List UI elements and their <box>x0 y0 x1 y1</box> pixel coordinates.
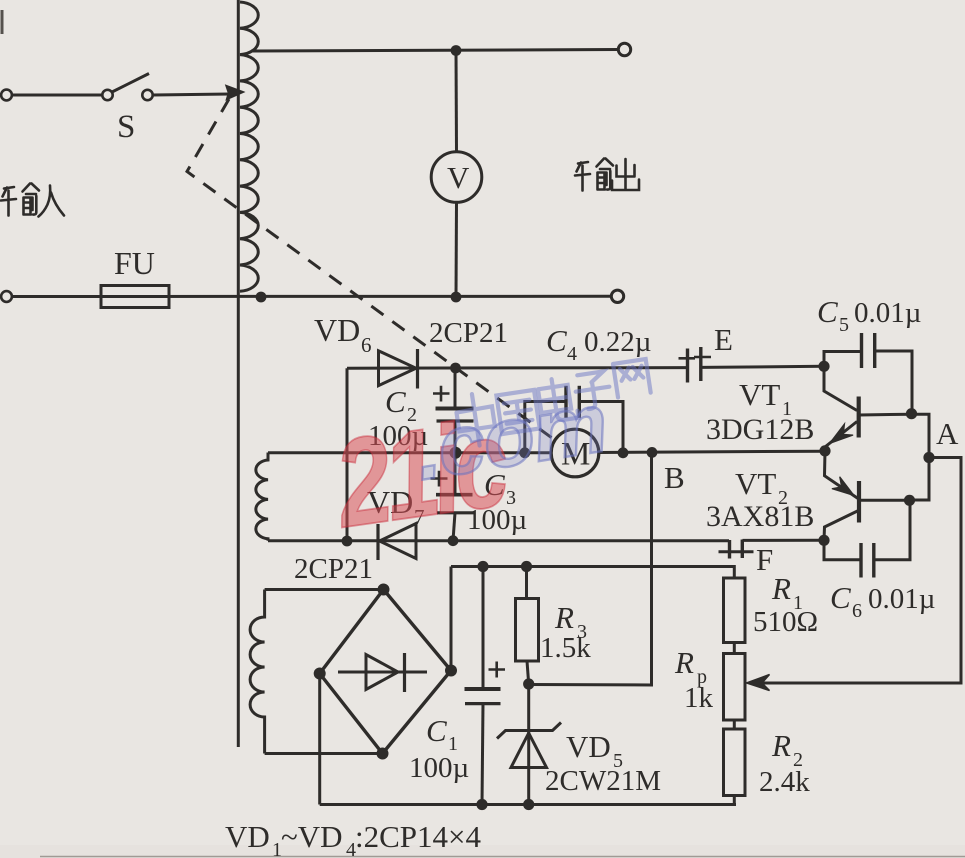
svg-text:100µ: 100µ <box>409 752 469 784</box>
svg-text:4: 4 <box>567 343 577 365</box>
resistor R3 1.5k <box>516 567 539 685</box>
svg-text:VT: VT <box>735 466 776 501</box>
char 入 <box>39 186 65 217</box>
junction C1 bottom on bottom rail <box>476 799 487 810</box>
label 输入 (input) <box>1 184 64 217</box>
watermark 21IC red <box>326 392 516 554</box>
svg-text:0.22µ: 0.22µ <box>584 326 651 358</box>
junction bridge bottom vertex <box>377 748 389 760</box>
svg-text:F: F <box>756 542 773 577</box>
label 510ohm (R1 value) <box>753 606 818 638</box>
wire node A to Rp wiper <box>750 458 961 684</box>
dashed mechanical link from wiper to motor <box>187 99 552 438</box>
junction primary bottom on input row <box>256 292 267 303</box>
svg-text:R: R <box>674 645 694 680</box>
transistor VT2 3AX81B (PNP, mirrored) <box>824 451 909 540</box>
svg-text:R: R <box>554 600 574 635</box>
resistor R1 510ohm <box>724 578 746 654</box>
junction bridge top vertex <box>378 584 390 596</box>
svg-text:2CP21: 2CP21 <box>429 317 508 349</box>
wire bridge left vertex drop to bottom rail <box>318 674 321 805</box>
junction C3 bottom on F row <box>448 535 459 546</box>
svg-text:VT: VT <box>739 377 780 412</box>
svg-text:VD: VD <box>314 312 360 348</box>
svg-text:B: B <box>664 460 685 495</box>
junction voltmeter top <box>451 45 462 56</box>
junction VT1 collector / C5 left / E row <box>818 361 829 372</box>
bridge inner diode symbol <box>338 653 427 692</box>
Rp wiper arrow <box>747 675 770 691</box>
svg-text:S: S <box>117 109 135 145</box>
wire bridge right vertex riser to top rail <box>450 567 453 671</box>
svg-text:VD: VD <box>566 729 611 764</box>
svg-text:~VD: ~VD <box>281 819 343 854</box>
transformer T1 upper secondary winding <box>256 453 268 541</box>
switch S <box>102 74 152 101</box>
svg-text:0.01µ: 0.01µ <box>868 583 935 615</box>
label 1.5k (R3 value) <box>540 632 591 664</box>
svg-text:6: 6 <box>852 600 862 622</box>
zener diode VD5 2CW21M <box>497 684 561 805</box>
svg-text:E: E <box>714 322 733 357</box>
input terminal bottom <box>1 291 12 302</box>
char 网 <box>613 359 651 398</box>
junction R3 top on rail <box>521 561 532 572</box>
node B junction <box>647 447 658 458</box>
wire E row y=368 (VD6 cathode to VT1 collector) <box>347 366 824 368</box>
label S <box>117 109 135 145</box>
svg-text:C: C <box>817 294 838 329</box>
wire input bottom row through fuse <box>12 295 611 298</box>
label 2.4k (R2 value) <box>759 766 810 798</box>
label R2 <box>771 728 803 771</box>
char 子 <box>573 371 612 411</box>
junction center row at C2/C3 <box>450 447 462 459</box>
svg-text:3DG12B: 3DG12B <box>706 413 814 446</box>
wire left loop vertical x=347 (VD6 anode to F row) <box>346 368 349 541</box>
resistor R2 2.4k <box>724 729 746 805</box>
label 100u (C1 value) <box>409 752 469 784</box>
junction left loop on F row <box>342 536 353 547</box>
label B <box>664 460 685 495</box>
motor M <box>551 429 599 477</box>
svg-text:VD: VD <box>225 819 270 854</box>
junction C4 right on center row <box>618 447 629 458</box>
wire bottom rail y=804 <box>320 803 736 806</box>
svg-text:2.4k: 2.4k <box>759 766 810 798</box>
label VT2 <box>735 466 788 509</box>
label C5 0.01u <box>817 294 921 336</box>
output terminal bottom <box>611 290 623 302</box>
svg-text:R: R <box>771 571 791 606</box>
svg-text:C: C <box>830 580 851 615</box>
wire F row y=541 (upper secondary bottom lead to VT2 collector) <box>268 539 824 542</box>
label F <box>756 542 773 577</box>
watermark .com blue <box>409 375 613 498</box>
label C2 <box>385 384 417 426</box>
wire input top to switch <box>12 94 102 97</box>
svg-text:C: C <box>546 323 567 358</box>
label A <box>936 416 959 451</box>
label E <box>714 322 733 357</box>
label 3AX81B (VT2 type) <box>706 500 814 533</box>
svg-text:V: V <box>447 160 470 195</box>
svg-text:2CP21: 2CP21 <box>294 553 373 585</box>
label VT1 <box>739 377 792 420</box>
junction C1 top on rail <box>477 561 488 572</box>
transformer T1 lower secondary winding <box>250 590 265 754</box>
capacitor F (coupling cap on F row) <box>719 540 754 559</box>
svg-text:2CW21M: 2CW21M <box>545 765 661 797</box>
junction VT1 base / C5 right <box>906 408 917 419</box>
svg-text::2CP14×4: :2CP14×4 <box>355 819 482 854</box>
capacitor E (coupling cap on E row) <box>679 347 712 383</box>
watermark 中国电子网 blue <box>453 359 655 448</box>
transformer T1 core (autotransformer vertical line) <box>237 0 240 747</box>
wire switch to variac wiper <box>153 94 230 95</box>
label 100u (C3 value) <box>467 504 527 536</box>
label Rp <box>674 645 707 688</box>
capacitor C5 0.01u (VT1 base-collector) <box>824 333 912 414</box>
junction C4 left on center row <box>519 447 530 458</box>
label 0.22u (C4 value) <box>584 326 651 358</box>
svg-text:A: A <box>936 416 959 451</box>
svg-text:C: C <box>426 713 447 748</box>
junction R3/VD5/node B <box>523 678 534 689</box>
capacitor C3 100u electrolytic <box>431 453 474 541</box>
char 中 <box>454 391 497 448</box>
svg-text:FU: FU <box>114 245 155 281</box>
label R3 <box>554 600 587 643</box>
label 2CP21 (VD6 type) <box>429 317 508 349</box>
diode VD6 2CP21 <box>379 349 418 389</box>
label C4 <box>546 323 577 365</box>
junction C2 top on E row <box>450 363 461 374</box>
label 100u (C2 value) <box>368 420 428 452</box>
note VD1~VD4:2CP14x4 <box>225 819 482 858</box>
label VD7 <box>367 484 425 529</box>
wire VT1 base junction to node A <box>912 414 930 457</box>
svg-text:6: 6 <box>361 333 372 357</box>
wire node B down and left to R3/VD5 junction <box>529 452 652 685</box>
wire node A to VT2 base junction <box>910 458 929 501</box>
label 2CW21M (VD5 type) <box>545 765 661 797</box>
capacitor C4 0.22u bridging motor <box>525 386 623 453</box>
wire top rail y=566 <box>451 567 734 579</box>
label 输出 (output) <box>575 159 639 191</box>
char 国 <box>496 390 539 434</box>
potentiometer Rp 1k <box>724 654 746 730</box>
junction bridge right vertex <box>445 665 457 677</box>
junction VD5 bottom on bottom rail <box>523 799 534 810</box>
voltmeter V <box>431 51 482 298</box>
label VD6 <box>314 312 372 357</box>
wire output top row <box>251 50 618 52</box>
svg-text:R: R <box>771 728 791 763</box>
label 1k (Rp value) <box>684 682 714 714</box>
capacitor C6 0.01u (VT2 base-collector) <box>824 500 910 577</box>
wire lower secondary bottom lead to bridge bottom vertex <box>265 752 383 755</box>
label 3DG12B (VT1 type) <box>706 413 814 446</box>
char 电 <box>537 376 579 423</box>
char 输 <box>575 162 590 191</box>
junction VT1/VT2 emitters on center row <box>819 445 830 456</box>
svg-text:5: 5 <box>839 314 849 336</box>
input terminal top <box>1 90 12 101</box>
label R1 <box>771 571 803 614</box>
label FU <box>114 245 155 281</box>
diode VD7 2CP21 <box>378 524 416 561</box>
char 出 <box>612 159 639 190</box>
svg-text:510Ω: 510Ω <box>753 606 818 638</box>
junction voltmeter bottom on input row <box>451 292 462 303</box>
bridge rectifier VD1-VD4 diamond <box>320 590 451 754</box>
label C3 <box>484 467 516 509</box>
variac wiper arrow <box>226 86 244 100</box>
junction bridge left vertex <box>314 668 326 680</box>
char 输 <box>1 187 16 216</box>
transistor VT1 3DG12B (NPN, mirrored) <box>824 366 911 452</box>
label VD5 <box>566 729 623 772</box>
junction VT2 base / C6 right <box>904 495 915 506</box>
transformer T1 primary winding (variac) <box>240 2 258 291</box>
label 2CP21 (VD7 type) <box>294 553 373 585</box>
svg-text:1.5k: 1.5k <box>540 632 591 664</box>
junction VT2 collector / C6 left / F row <box>818 535 829 546</box>
svg-text:1k: 1k <box>684 682 714 714</box>
capacitor C2 100u electrolytic <box>433 368 474 453</box>
capacitor C1 100u electrolytic <box>465 567 506 805</box>
svg-text:3AX81B: 3AX81B <box>706 500 814 533</box>
svg-text:0.01µ: 0.01µ <box>854 297 921 329</box>
fuse FU <box>101 286 169 308</box>
wire center row y=452 (upper secondary top lead to motor and transistors) <box>268 451 825 453</box>
wire lower secondary top lead to bridge top vertex <box>265 588 384 591</box>
label C6 0.01u <box>830 580 935 622</box>
output terminal top <box>618 43 630 55</box>
label C1 <box>426 713 458 755</box>
node A junction <box>923 452 934 463</box>
